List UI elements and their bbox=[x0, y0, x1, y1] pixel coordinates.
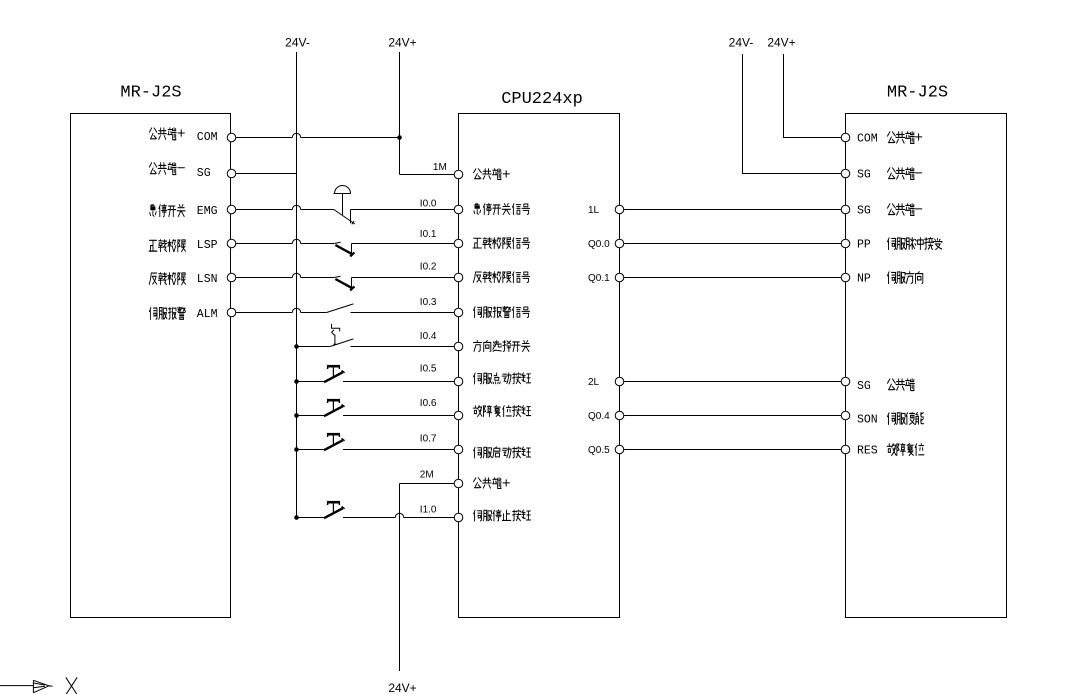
junction 24V- / I0.5 jog button bbox=[294, 379, 299, 384]
terminal ALM (left box) bbox=[227, 308, 236, 317]
wire I0.6 fault-reset button to CPU bbox=[343, 415, 454, 417]
limit switch LSP NC contact bbox=[334, 242, 354, 256]
svg-text:RES: RES bbox=[857, 445, 878, 458]
svg-text:24V+: 24V+ bbox=[388, 681, 416, 694]
label 伺服方向 (right box) bbox=[887, 272, 922, 284]
label 公共端+ (left box) bbox=[149, 128, 184, 140]
wire right 24V- to SG bbox=[743, 54, 842, 174]
svg-text:LSP: LSP bbox=[197, 239, 218, 252]
label 公共端+ (right box COM) bbox=[887, 132, 921, 144]
terminal EMG (left box) bbox=[227, 205, 236, 214]
terminal SG (right box) bbox=[841, 377, 850, 386]
wire 24V+ to 1M bbox=[400, 174, 455, 176]
junction 24V- / I0.7 start button bbox=[294, 447, 299, 452]
net 24V+ vertical wire bbox=[399, 52, 401, 175]
junction 24V- / selector bbox=[294, 344, 299, 349]
svg-text:Q0.4: Q0.4 bbox=[588, 411, 610, 422]
svg-text:2L: 2L bbox=[588, 377, 600, 388]
wire 24V- to selector switch bbox=[297, 346, 331, 348]
svg-text:1L: 1L bbox=[588, 205, 600, 216]
terminal Q0.4 (CPU right) bbox=[615, 411, 624, 420]
pushbutton I0.6 fault-reset button bbox=[324, 400, 345, 416]
terminal SG (right box) bbox=[841, 169, 850, 178]
terminal I0.1 (CPU left) bbox=[454, 239, 463, 248]
svg-text:SG: SG bbox=[857, 380, 871, 393]
signal label 急停开关信号 bbox=[474, 204, 530, 215]
terminal I0.3 (CPU left) bbox=[454, 308, 463, 317]
terminal COM (right box) bbox=[841, 133, 850, 142]
wire Q0.4 to SON bbox=[624, 415, 841, 417]
label 急停开关 (left box) bbox=[150, 204, 185, 216]
junction COM/24V+ bbox=[397, 135, 402, 140]
svg-text:COM: COM bbox=[197, 131, 218, 144]
pushbutton I1.0 stop button bbox=[324, 502, 345, 518]
terminal SG (right box) bbox=[841, 205, 850, 214]
label 故障复位 (right box) bbox=[887, 444, 924, 456]
wire LSN to switch bbox=[236, 277, 334, 279]
wire selector to CPU I0.4 bbox=[350, 346, 454, 348]
svg-text:SG: SG bbox=[197, 167, 211, 180]
pushbutton I0.5 jog button bbox=[324, 366, 345, 382]
svg-text:24V+: 24V+ bbox=[388, 36, 416, 50]
svg-text:I0.1: I0.1 bbox=[420, 229, 437, 240]
terminal 1M (CPU left) bbox=[454, 170, 463, 179]
svg-text:I0.2: I0.2 bbox=[420, 262, 437, 273]
wire 24V- to I0.7 start button bbox=[297, 449, 325, 451]
svg-text:I1.0: I1.0 bbox=[420, 505, 437, 516]
signal label 故障复位按钮 bbox=[473, 406, 530, 417]
signal label 正转极限信号 bbox=[473, 238, 530, 249]
svg-text:I0.7: I0.7 bbox=[420, 433, 437, 444]
svg-text:24V+: 24V+ bbox=[767, 36, 795, 50]
label 正转极限 (left box) bbox=[149, 240, 186, 252]
terminal Q0.1 (CPU right) bbox=[615, 273, 624, 282]
label 反转极限 (left box) bbox=[149, 273, 185, 285]
signal label 伺服启动按钮 bbox=[474, 447, 531, 458]
svg-text:EMG: EMG bbox=[197, 205, 218, 218]
signal label 伺服点动按钮 bbox=[474, 373, 531, 384]
wire I0.7 start button to CPU bbox=[343, 449, 454, 451]
wire I0.5 jog button to CPU bbox=[343, 381, 454, 383]
svg-text:MR-J2S: MR-J2S bbox=[120, 84, 181, 103]
wire ALM contact to CPU bbox=[350, 312, 454, 314]
terminal SG (left box) bbox=[227, 169, 236, 178]
svg-text:Q0.5: Q0.5 bbox=[588, 445, 610, 456]
emergency stop switch SB0 (mushroom head) bbox=[334, 194, 352, 216]
terminal 1L (CPU right) bbox=[615, 205, 624, 214]
CPU box CPU224xp bbox=[459, 114, 620, 618]
junction 24V- / I1.0 stop button bbox=[294, 515, 299, 520]
terminal I0.2 (CPU left) bbox=[454, 273, 463, 282]
label 伺服使能 (right box) bbox=[887, 412, 923, 424]
wire COM to 24V+ rail bbox=[236, 137, 400, 139]
label 公共端- (right box SG) bbox=[887, 168, 921, 180]
svg-text:I0.3: I0.3 bbox=[420, 297, 437, 308]
net 2M vertical wire to 24V+ bbox=[399, 484, 401, 672]
svg-text:Q0.1: Q0.1 bbox=[588, 273, 610, 284]
svg-text:Q0.0: Q0.0 bbox=[588, 239, 610, 250]
svg-text:SG: SG bbox=[857, 205, 871, 218]
signal label 伺服报警信号 bbox=[474, 306, 530, 317]
axis label X bbox=[66, 677, 77, 694]
direction selector switch SA (manual actuator) bbox=[332, 324, 340, 344]
label 公共端 (right box) bbox=[887, 379, 914, 391]
terminal Q0.5 (CPU right) bbox=[615, 445, 624, 454]
wire 1L to SG bbox=[624, 209, 841, 211]
wire Q0.0 to PP bbox=[624, 243, 841, 245]
svg-text:NP: NP bbox=[857, 273, 871, 286]
wire Q0.1 to NP bbox=[624, 277, 841, 279]
svg-text:1M: 1M bbox=[433, 162, 447, 173]
label 公共端- (left box) bbox=[149, 163, 184, 175]
terminal COM (left box) bbox=[227, 133, 236, 142]
wire EMG switch to I0.0 bbox=[351, 209, 455, 211]
svg-text:CPU224xp: CPU224xp bbox=[501, 90, 583, 109]
svg-text:SON: SON bbox=[857, 414, 878, 427]
svg-text:24V-: 24V- bbox=[729, 36, 754, 50]
wire SG to 24V- rail bbox=[236, 173, 297, 175]
wire 24V- to I1.0 stop button bbox=[297, 517, 325, 519]
wire I1.0 stop button to CPU (hops 2M line) bbox=[343, 517, 454, 519]
terminal 2L (CPU right) bbox=[615, 377, 624, 386]
svg-text:MR-J2S: MR-J2S bbox=[887, 84, 948, 103]
axis arrow bbox=[0, 680, 53, 692]
label 公共端- (right box) bbox=[887, 204, 921, 216]
svg-text:I0.6: I0.6 bbox=[420, 398, 437, 409]
left servo drive box MR-J2S bbox=[71, 114, 231, 618]
signal label 伺服停止按钮 bbox=[474, 510, 531, 521]
wire LSP to switch bbox=[236, 243, 334, 245]
wire 24V- to I0.5 jog button bbox=[297, 381, 325, 383]
wire 2L to SG bbox=[624, 381, 841, 383]
label 伺服脉冲接受 (right box) bbox=[887, 238, 941, 250]
signal label 反转极限信号 bbox=[473, 272, 529, 283]
wire ALM to contact bbox=[236, 312, 327, 314]
svg-text:I0.0: I0.0 bbox=[420, 199, 437, 210]
svg-text:LSN: LSN bbox=[197, 273, 218, 286]
signal label 公共端+ bbox=[474, 478, 510, 489]
wire right 24V+ to COM bbox=[784, 54, 842, 138]
wire 24V- to I0.6 fault-reset button bbox=[297, 415, 325, 417]
terminal PP (right box) bbox=[841, 239, 850, 248]
label 伺服报警 (left box) bbox=[149, 307, 185, 319]
terminal I0.0 (CPU left) bbox=[454, 205, 463, 214]
signal label 方向选择开关 bbox=[473, 341, 529, 352]
terminal Q0.0 (CPU right) bbox=[615, 239, 624, 248]
wire LSN switch to CPU bbox=[352, 277, 455, 279]
emergency stop NC contact bbox=[334, 210, 355, 225]
terminal I0.5 (CPU left) bbox=[454, 377, 463, 386]
svg-text:I0.5: I0.5 bbox=[420, 364, 437, 375]
net 24V- vertical rail bbox=[296, 52, 298, 518]
svg-text:PP: PP bbox=[857, 239, 871, 252]
svg-text:SG: SG bbox=[857, 169, 871, 182]
svg-text:COM: COM bbox=[857, 133, 878, 146]
terminal SON (right box) bbox=[841, 411, 850, 420]
terminal NP (right box) bbox=[841, 273, 850, 282]
wire 2M to bottom 24V+ bbox=[400, 483, 455, 485]
wire LSP switch to CPU bbox=[352, 243, 455, 245]
terminal LSP (left box) bbox=[227, 239, 236, 248]
terminal LSN (left box) bbox=[227, 273, 236, 282]
limit switch LSN NC contact bbox=[334, 276, 354, 290]
alarm relay NO contact ALM bbox=[327, 304, 354, 313]
terminal I0.6 (CPU left) bbox=[454, 411, 463, 420]
svg-text:I0.4: I0.4 bbox=[420, 331, 437, 342]
signal label 公共端+ bbox=[474, 169, 510, 180]
pushbutton I0.7 start button bbox=[324, 434, 345, 450]
svg-text:ALM: ALM bbox=[197, 308, 218, 321]
terminal 2M (CPU left) bbox=[454, 479, 463, 488]
wire Q0.5 to RES bbox=[624, 449, 841, 451]
terminal RES (right box) bbox=[841, 445, 850, 454]
terminal I0.4 (CPU left) bbox=[454, 342, 463, 351]
right servo drive box MR-J2S bbox=[846, 114, 1007, 618]
svg-text:2M: 2M bbox=[420, 470, 434, 481]
svg-text:24V-: 24V- bbox=[285, 36, 310, 50]
terminal I1.0 (CPU left) bbox=[454, 513, 463, 522]
terminal I0.7 (CPU left) bbox=[454, 445, 463, 454]
wire EMG to switch bbox=[236, 209, 334, 211]
junction 24V- / I0.6 fault-reset button bbox=[294, 413, 299, 418]
